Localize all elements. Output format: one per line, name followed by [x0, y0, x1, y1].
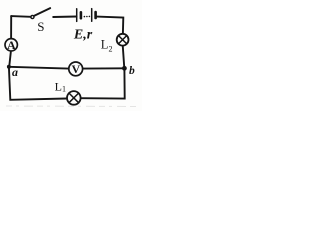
wire node a to voltmeter — [9, 67, 68, 69]
node a — [7, 65, 11, 69]
wire top-left horizontal to switch — [11, 15, 31, 18]
wire switch to battery — [53, 16, 76, 19]
battery E,r — [77, 9, 96, 22]
switch S — [31, 8, 50, 19]
wire voltmeter to node b — [83, 67, 124, 69]
svg-text:b: b — [129, 65, 135, 77]
wire battery to top-right corner down to lamp L2 — [97, 17, 124, 33]
ammeter A — [5, 39, 17, 51]
wire node b to bottom-right corner to lamp L1 — [81, 68, 125, 98]
lamp L1 — [67, 91, 81, 105]
svg-text:E,r: E,r — [73, 27, 93, 42]
wire lamp L2 to node b — [123, 46, 125, 68]
wire ammeter to top-left corner — [10, 16, 12, 38]
svg-text:A: A — [7, 38, 16, 52]
lamp L2 — [117, 34, 129, 46]
wire lamp L1 to bottom-left corner up to node a — [9, 67, 67, 100]
svg-text:a: a — [12, 65, 18, 79]
svg-text:V: V — [71, 62, 80, 76]
node b — [122, 66, 127, 71]
scan artifact line — [6, 105, 140, 108]
svg-text:S: S — [37, 19, 44, 34]
wire node a up to ammeter — [9, 52, 11, 67]
voltmeter V — [69, 62, 83, 76]
